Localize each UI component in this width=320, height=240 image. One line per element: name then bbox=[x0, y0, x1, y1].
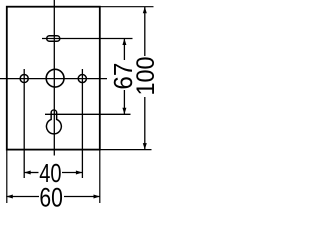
svg-text:60: 60 bbox=[39, 182, 63, 210]
svg-text:100: 100 bbox=[132, 57, 160, 96]
